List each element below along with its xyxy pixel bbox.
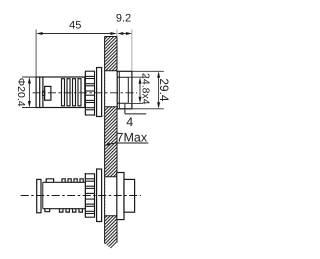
- svg-text:45: 45: [69, 19, 81, 31]
- svg-text:7Max: 7Max: [116, 131, 147, 145]
- svg-text:9.2: 9.2: [116, 12, 131, 24]
- svg-text:4: 4: [126, 115, 133, 129]
- svg-text:Φ20.4: Φ20.4: [15, 78, 27, 107]
- svg-text:29.4: 29.4: [157, 78, 171, 101]
- svg-text:24.8x4: 24.8x4: [140, 73, 152, 105]
